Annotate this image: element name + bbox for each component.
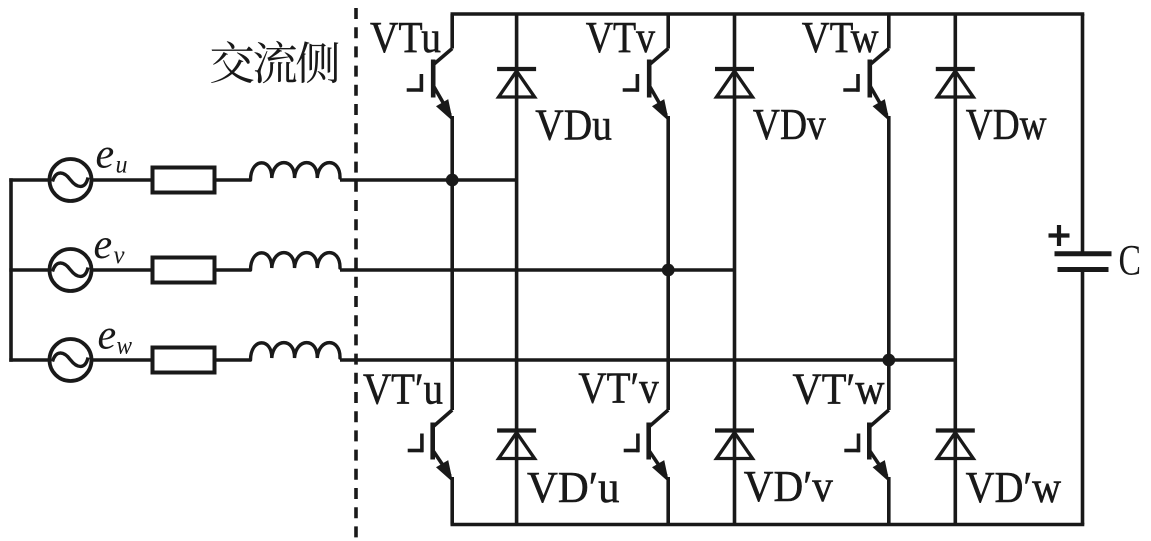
ac source e_w: [50, 339, 92, 381]
svg-text:e: e: [96, 132, 115, 178]
svg-text:v: v: [114, 242, 126, 269]
svg-text:VDw: VDw: [966, 100, 1047, 149]
label VT&#8242;w: [793, 365, 885, 414]
svg-text:VD′u: VD′u: [527, 463, 620, 512]
svg-text:e: e: [94, 222, 113, 268]
svg-text:VT′u: VT′u: [363, 365, 443, 414]
resistor Rw: [153, 348, 215, 373]
svg-text:VD′v: VD′v: [744, 462, 833, 511]
diode VD&#8242;v: [715, 431, 754, 459]
svg-text:e: e: [98, 313, 117, 359]
label e_w: [98, 313, 133, 360]
label VD&#8242;u: [527, 463, 620, 512]
ac source e_v: [50, 249, 92, 291]
dashed AC-side boundary: [354, 8, 358, 541]
node: phase u junction: [446, 174, 459, 187]
svg-text:VDu: VDu: [535, 101, 612, 150]
svg-text:VD′w: VD′w: [966, 463, 1062, 512]
diode VD&#8242;w: [936, 431, 975, 459]
wire: phase v row segments: [9, 268, 734, 272]
svg-text:C: C: [1119, 238, 1142, 285]
capacitor C plates: [1055, 254, 1112, 270]
svg-text:VT′w: VT′w: [793, 365, 885, 414]
transistor VT&#8242;w (lower IGBT): [844, 360, 889, 525]
label VD&#8242;v: [744, 462, 833, 511]
label VDv: [753, 100, 826, 149]
resistor Ru: [153, 168, 215, 193]
inductor Lw: [251, 343, 341, 360]
label VT&#8242;v: [578, 364, 658, 413]
wire: right DC bus lower: [1081, 270, 1085, 525]
label VTu: [370, 13, 441, 62]
wire: top DC bus: [451, 12, 1085, 16]
node: phase w junction: [882, 354, 895, 367]
diode VDu: [497, 69, 536, 97]
inductor Lv: [251, 253, 341, 270]
wire: left vertical bus: [9, 178, 13, 361]
transistor VTv (upper IGBT): [623, 14, 669, 270]
label C: [1119, 238, 1142, 285]
wire: diode leg v: [733, 14, 737, 525]
resistor Rv: [153, 258, 215, 283]
label VT&#8242;u: [363, 365, 443, 414]
ac source e_u: [50, 159, 92, 201]
diode VD&#8242;u: [497, 431, 536, 459]
svg-text:VT′v: VT′v: [578, 364, 658, 413]
wire: phase u row segments: [9, 178, 516, 182]
label e_v: [94, 222, 126, 269]
inductor Lu: [251, 163, 341, 180]
wire: diode leg u: [515, 14, 519, 525]
transistor VTw (upper IGBT): [843, 14, 889, 360]
label VDu: [535, 101, 612, 150]
wire: bottom DC bus: [451, 523, 1085, 527]
svg-text:VTv: VTv: [586, 13, 655, 62]
label VDw: [966, 100, 1047, 149]
label VD&#8242;w: [966, 463, 1062, 512]
label VTv: [586, 13, 655, 62]
svg-text:w: w: [117, 333, 133, 360]
svg-text:u: u: [116, 152, 128, 179]
diode VDw: [936, 69, 975, 97]
wire: diode leg w: [953, 14, 957, 525]
transistor VT&#8242;v (lower IGBT): [624, 270, 669, 525]
polarity plus sign: [1049, 225, 1070, 246]
wire: phase w row segments: [9, 358, 955, 362]
transistor VT&#8242;u (lower IGBT): [408, 180, 453, 525]
wire: right DC bus upper: [1081, 14, 1085, 254]
svg-text:VDv: VDv: [753, 100, 826, 149]
label e_u: [96, 132, 128, 179]
diode VDv: [715, 69, 754, 97]
svg-text:VTw: VTw: [802, 13, 879, 62]
transistor VTu (upper IGBT): [407, 14, 453, 180]
label VTw: [802, 13, 879, 62]
label: Chinese text jiao-liu-ce (AC side): [211, 41, 338, 83]
node: phase v junction: [662, 264, 675, 277]
svg-text:VTu: VTu: [370, 13, 441, 62]
